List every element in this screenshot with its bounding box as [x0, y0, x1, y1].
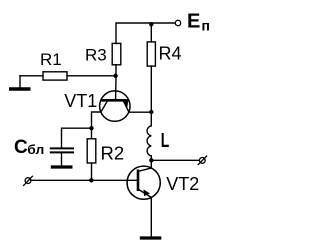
wire inductor bottom to node E: [150, 156, 152, 160]
node A (R1/R3/VT1 base junction): [113, 74, 117, 78]
ground (below Cбл): [51, 152, 73, 167]
node B (R4/VT1 emitter/L junction): [149, 110, 153, 114]
svg-text:VT2: VT2: [166, 174, 199, 194]
resistor R4: [147, 42, 155, 66]
node C (VT1 collector / C бл / R2 junction): [89, 126, 93, 130]
svg-text:бл: бл: [27, 142, 44, 157]
wire R3 top lead and top rail: [116, 23, 175, 43]
svg-text:R1: R1: [40, 50, 62, 69]
terminal Eп (open circle): [175, 20, 180, 25]
wire VT2 emitter down to ground: [150, 197, 152, 236]
svg-text:R2: R2: [101, 142, 125, 163]
svg-text:VT1: VT1: [64, 91, 97, 111]
wire VT1 collector to node C: [92, 112, 101, 128]
transistor VT1 (PNP): [100, 91, 130, 121]
wire node C to capacitor top: [62, 128, 92, 147]
svg-text:R4: R4: [159, 44, 182, 64]
node D (R2 / input line junction): [89, 178, 93, 182]
svg-text:R3: R3: [85, 45, 107, 64]
resistor R1: [43, 72, 67, 80]
wire ground to R1: [20, 75, 43, 77]
wire input terminal to VT2 base: [31, 179, 138, 181]
ground (below VT2): [140, 236, 162, 239]
wire node B to inductor top: [150, 112, 152, 126]
wire R4 bottom to node B: [150, 66, 152, 112]
terminal output (circle with slash): [198, 156, 206, 165]
capacitor Cбл: [51, 148, 73, 152]
svg-text:L: L: [161, 130, 170, 152]
wire node E to output terminal: [151, 159, 199, 161]
resistor R3: [112, 43, 121, 64]
ground (top left, at R1): [9, 76, 31, 89]
wire node C to R2 top: [91, 128, 93, 139]
inductor L: [147, 126, 151, 156]
terminal input (circle with slash): [24, 176, 33, 185]
wire VT1 emitter to node B: [129, 111, 151, 113]
svg-text:С: С: [14, 137, 28, 158]
wire R3 bottom to node A to VT1 base: [115, 65, 117, 99]
svg-text:E: E: [187, 11, 200, 33]
node junction rail/R4: [149, 22, 153, 26]
wire R4 top lead: [150, 23, 152, 42]
label Cбл: [14, 137, 44, 158]
transistor VT2 (NPN): [127, 166, 160, 199]
node E (L / VT2 collector / output junction): [149, 158, 153, 162]
wire R2 bottom to node D: [91, 163, 93, 180]
wire R1 to node A: [67, 75, 116, 77]
wire node E to VT2 collector: [150, 160, 152, 168]
label Eп: [187, 11, 210, 34]
resistor R2: [87, 139, 96, 163]
svg-text:п: п: [202, 17, 210, 33]
